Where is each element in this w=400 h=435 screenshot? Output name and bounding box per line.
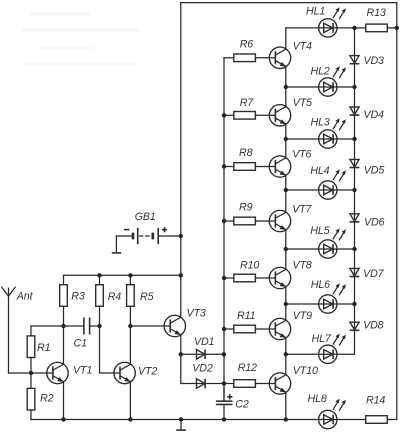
LED HL3: [319, 118, 346, 148]
svg-text:R6: R6: [240, 38, 254, 50]
svg-text:HL4: HL4: [310, 165, 329, 177]
diode VD6: [350, 214, 360, 222]
wire LED row 2: [286, 86, 355, 88]
svg-text:GB1: GB1: [135, 211, 156, 223]
junction HL3 VD4 VD5 node: [352, 137, 356, 141]
svg-text:HL7: HL7: [312, 333, 332, 345]
transistor VT3: [164, 315, 185, 336]
wire VT10 emitter: [285, 392, 287, 419]
transistor VT7: [269, 210, 290, 231]
wire VT10 collector: [285, 354, 287, 375]
wire VT4 collector: [285, 28, 287, 49]
svg-text:R12: R12: [238, 362, 257, 374]
junction HL1 R13 VD3 node: [352, 26, 356, 30]
wire C1 to R4 node: [90, 325, 99, 327]
junction base rail R11: [222, 327, 226, 331]
junction base rail VD1: [222, 352, 226, 356]
transistor VT1: [47, 362, 68, 383]
diode VD7: [350, 268, 360, 276]
wire VT1 collector: [63, 326, 65, 364]
wire LED row 4: [286, 189, 355, 191]
wire LED row 6: [286, 303, 355, 305]
resistor R10: [224, 274, 275, 282]
svg-text:R14: R14: [366, 394, 385, 406]
wire VT2 collector: [129, 326, 131, 364]
wire VT9 emitter: [285, 338, 287, 355]
junction R3 bottom VT1 collector: [61, 324, 65, 328]
svg-text:VT5: VT5: [293, 97, 312, 109]
resistor R3: [60, 275, 68, 326]
wire VT1 emitter: [63, 382, 65, 420]
diode VD3: [350, 56, 360, 64]
resistor R13: [355, 24, 397, 32]
junction antenna R1 R2 VT1 base node: [29, 371, 33, 375]
wire base rail R6-R12: [223, 58, 225, 401]
svg-text:VD6: VD6: [364, 217, 385, 229]
svg-text:Ant: Ant: [16, 290, 34, 302]
junction VT2 emitter common rail: [128, 417, 132, 421]
wire VT3 emitter to VD1 VD2: [180, 335, 182, 355]
junction R5 top: [128, 273, 132, 277]
wire R3 R4 R5 supply rail: [64, 274, 181, 276]
svg-text:VT6: VT6: [292, 149, 311, 161]
LED HL8: [319, 399, 346, 429]
svg-text:VT8: VT8: [293, 260, 312, 272]
resistor R14: [366, 416, 388, 424]
svg-text:C2: C2: [235, 399, 249, 411]
svg-text:R9: R9: [239, 201, 253, 213]
svg-text:R1: R1: [37, 342, 51, 354]
resistor R12: [224, 380, 275, 388]
wire VT8 emitter: [285, 287, 287, 304]
transistor VT4: [269, 47, 290, 68]
resistor R2: [27, 373, 35, 420]
svg-text:R5: R5: [140, 291, 154, 303]
wire R5 node to VT3 base: [130, 325, 170, 327]
resistor R5: [127, 275, 135, 326]
junction GB1 plus to supply rail: [179, 234, 183, 238]
svg-text:R4: R4: [108, 291, 122, 303]
wire R4 node to VT2 base: [100, 326, 121, 373]
LED HL2: [319, 66, 346, 96]
svg-text:R13: R13: [367, 7, 386, 19]
svg-text:VT4: VT4: [293, 41, 312, 53]
junction HL4 VD5 VD6 node: [352, 188, 356, 192]
svg-text:VD1: VD1: [194, 336, 215, 348]
svg-text:HL6: HL6: [311, 279, 330, 291]
wire right rail: [396, 3, 398, 420]
wire bottom common rail: [31, 419, 397, 421]
svg-text:VT10: VT10: [293, 365, 318, 377]
junction supply rail to R3 R4 R5 rail: [179, 273, 183, 277]
junction base rail R9: [222, 219, 226, 223]
wire LED row 7: [286, 353, 355, 355]
junction base rail R7: [222, 113, 226, 117]
svg-text:VD4: VD4: [364, 109, 385, 121]
wire VT4 emitter: [285, 67, 287, 88]
junction HL5 VD6 VD7 node: [352, 247, 356, 251]
wire LED row 1: [286, 27, 355, 29]
wire antenna to VT1 base node: [9, 372, 43, 374]
resistor R8: [224, 163, 275, 171]
wire VT7 emitter: [285, 230, 287, 249]
junction VT8 emitter VT9 collector row 6: [284, 302, 288, 306]
junction ground common rail: [179, 417, 183, 421]
svg-text:R7: R7: [240, 97, 255, 109]
transistor VT10: [269, 373, 290, 394]
diode VD2: [181, 354, 224, 388]
transistor VT5: [269, 105, 290, 126]
junction VT5 emitter VT6 collector row 3: [284, 137, 288, 141]
junction C1 R4 VT2 base node: [97, 324, 101, 328]
wire VT6 collector: [285, 139, 287, 158]
junction VT9 emitter VT10 collector row 7: [284, 352, 288, 356]
svg-text:R3: R3: [71, 291, 85, 303]
junction VT7 emitter VT8 collector row 5: [284, 247, 288, 251]
transistor VT9: [269, 318, 290, 339]
svg-text:HL1: HL1: [306, 5, 325, 17]
wire VT7 collector: [285, 190, 287, 212]
transistor VT8: [269, 267, 290, 288]
resistor R11: [224, 325, 275, 333]
resistor R9: [224, 217, 275, 225]
junction base rail R8: [222, 164, 226, 168]
resistor R6: [224, 54, 275, 62]
svg-text:VT1: VT1: [73, 364, 92, 376]
svg-text:VD5: VD5: [364, 165, 385, 177]
junction R5 VT2 collector VT3 base node: [128, 324, 132, 328]
svg-text:HL3: HL3: [311, 117, 330, 129]
diode VD1: [181, 350, 224, 360]
junction C2 common rail: [222, 417, 226, 421]
svg-text:VT2: VT2: [138, 365, 157, 377]
wire top supply rail: [181, 2, 397, 4]
LED HL6: [319, 283, 346, 313]
junction base rail VD2 R12: [222, 381, 226, 385]
svg-text:VD7: VD7: [363, 268, 385, 280]
wire left supply rail: [180, 3, 182, 318]
svg-text:VT9: VT9: [293, 310, 312, 322]
svg-text:HL5: HL5: [310, 225, 329, 237]
LED HL7: [319, 334, 346, 364]
svg-text:HL8: HL8: [308, 393, 327, 405]
svg-text:VD8: VD8: [363, 320, 384, 332]
LED HL1: [319, 7, 346, 37]
svg-text:VD2: VD2: [192, 362, 213, 374]
junction VT6 emitter VT7 collector row 4: [284, 188, 288, 192]
svg-text:R11: R11: [237, 310, 256, 322]
svg-text:VT7: VT7: [292, 203, 312, 215]
ground common rail: [176, 420, 186, 431]
wire R1 top to C1: [31, 325, 83, 327]
wire VD3-VD8 rail: [354, 28, 356, 354]
wire VT2 emitter: [129, 382, 131, 420]
resistor R7: [224, 112, 275, 120]
wire VT8 collector: [285, 249, 287, 269]
wire LED row 3: [286, 138, 355, 140]
svg-text:HL2: HL2: [311, 66, 330, 78]
wire VT9 collector: [285, 304, 287, 320]
junction R13 right rail: [395, 26, 399, 30]
junction VT10 emitter common rail: [284, 417, 288, 421]
svg-text:R2: R2: [40, 393, 54, 405]
wire VT5 emitter: [285, 124, 287, 139]
junction VT1 emitter common rail: [61, 417, 65, 421]
svg-text:C1: C1: [74, 337, 88, 349]
wire VT5 collector: [285, 87, 287, 107]
junction base rail R10: [222, 276, 226, 280]
svg-text:R8: R8: [239, 147, 253, 159]
svg-text:VT3: VT3: [187, 307, 206, 319]
capacitor C2: [216, 384, 233, 420]
battery GB1: [116, 227, 180, 244]
diode VD5: [350, 159, 360, 167]
resistor R1: [27, 326, 35, 373]
diode VD8: [350, 322, 360, 330]
antenna Ant: [2, 287, 15, 373]
wire LED row 5: [286, 248, 355, 250]
transistor VT2: [114, 362, 135, 383]
junction VT3 emitter VD1 VD2 node: [179, 352, 183, 356]
LED HL4: [319, 169, 346, 199]
junction HL2 VD3 VD4 node: [352, 85, 356, 89]
junction R4 top: [97, 273, 101, 277]
junction HL6 VD7 VD8 node: [352, 302, 356, 306]
diode VD4: [350, 107, 360, 115]
svg-text:VD3: VD3: [364, 55, 385, 67]
resistor R4: [96, 275, 104, 326]
wire VT6 emitter: [285, 175, 287, 190]
svg-text:R10: R10: [240, 260, 259, 272]
junction VT4 emitter VT5 collector row 2: [284, 85, 288, 89]
capacitor C1: [84, 318, 90, 335]
ground GB1 minus terminal: [112, 236, 121, 253]
transistor VT6: [269, 156, 290, 177]
LED HL5: [319, 228, 346, 258]
